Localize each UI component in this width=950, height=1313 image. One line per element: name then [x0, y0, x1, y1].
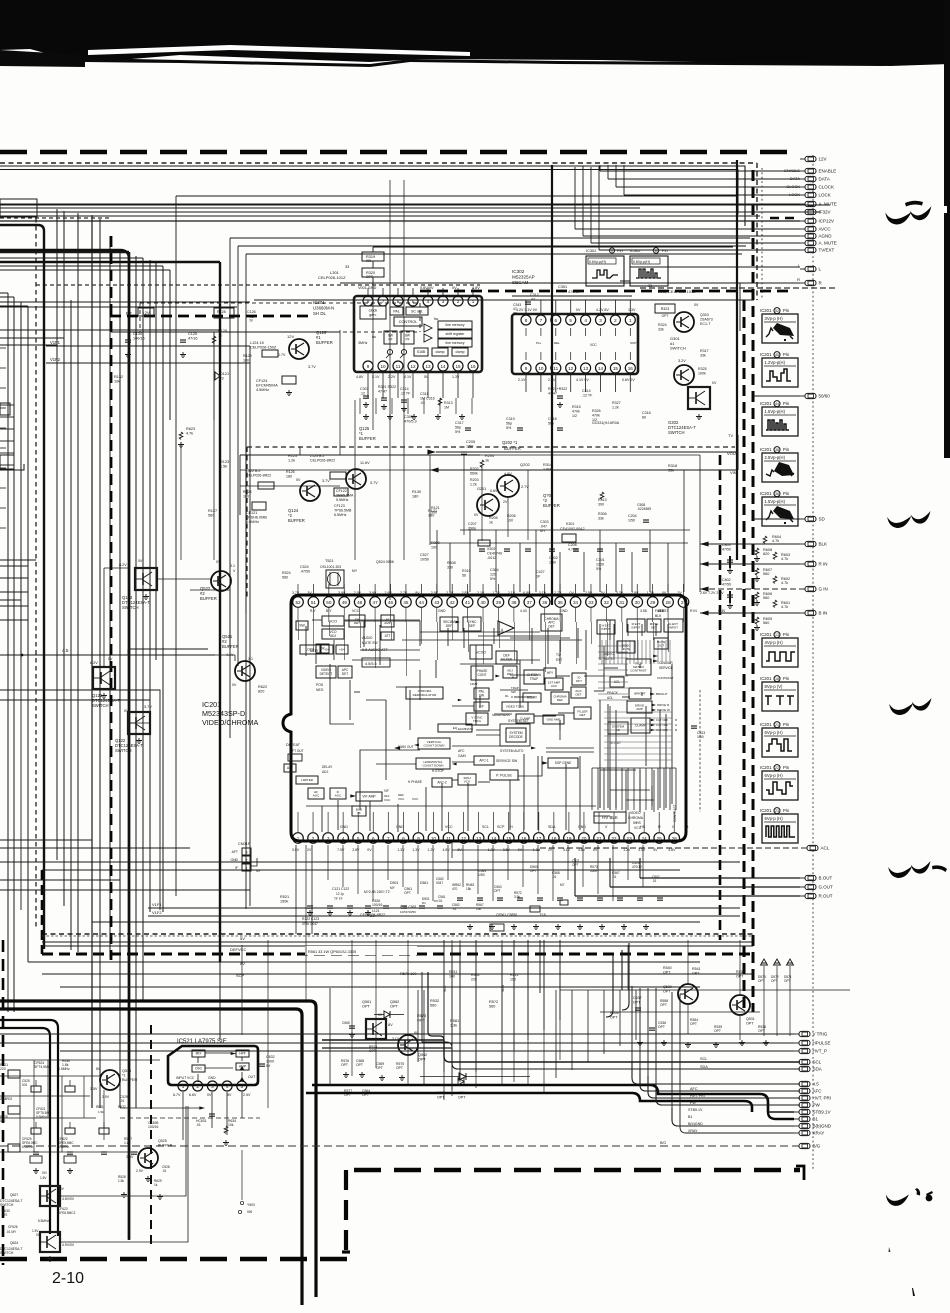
svg-text:2.8V: 2.8V	[631, 591, 639, 595]
svg-text:9: 9	[367, 364, 370, 369]
svg-text:39: 39	[496, 600, 502, 605]
bold bus corner left	[0, 1001, 316, 1297]
svg-text:A: A	[512, 675, 514, 679]
corner wires from top into verticals	[57, 209, 92, 216]
svg-text:1000: 1000	[266, 1059, 274, 1063]
svg-text:R: R	[675, 718, 677, 722]
svg-text:VIDEO: VIDEO	[604, 652, 614, 656]
IC301 top pins	[363, 296, 373, 306]
IC201 interior mesh wires	[344, 621, 364, 647]
svg-text:B(b)GND: B(b)GND	[688, 1122, 703, 1126]
svg-text:2V: 2V	[503, 500, 508, 504]
svg-text:IC201: IC201	[760, 401, 772, 406]
transistor G301 body	[674, 365, 694, 385]
svg-text:560: 560	[763, 572, 769, 576]
svg-text:6.6V: 6.6V	[189, 1093, 197, 1097]
connector G.OUT	[800, 886, 805, 888]
svg-text:47/50: 47/50	[722, 547, 731, 551]
svg-text:R127: R127	[208, 509, 217, 513]
svg-text:R321 R322: R321 R322	[378, 385, 396, 389]
svg-text:DET: DET	[576, 692, 582, 696]
svg-text:23: 23	[775, 809, 779, 813]
svg-text:GC531(HJ-6R0A: GC531(HJ-6R0A	[592, 421, 620, 425]
svg-text:2.9V: 2.9V	[446, 591, 454, 595]
bottom boundary corner hook	[796, 1166, 804, 1180]
svg-text:470/10: 470/10	[632, 865, 642, 869]
left edge entry stubs upper	[0, 404, 14, 406]
svg-text:C208: C208	[568, 543, 577, 547]
svg-text:R202: R202	[470, 467, 479, 471]
IC301 shift register box	[438, 330, 472, 338]
svg-text:C564: C564	[458, 1091, 467, 1095]
svg-text:38: 38	[775, 448, 779, 452]
svg-text:GND: GND	[208, 1076, 216, 1080]
svg-text:1k: 1k	[218, 334, 222, 338]
svg-text:SCL: SCL	[443, 985, 447, 992]
connector 50/60	[800, 395, 805, 397]
svg-text:10: 10	[538, 366, 544, 371]
svg-text:2.1V: 2.1V	[518, 378, 526, 382]
svg-text:.01: .01	[120, 1099, 125, 1103]
svg-text:3.5V: 3.5V	[503, 848, 511, 852]
svg-text:HPF: HPF	[239, 1052, 245, 1056]
svg-text:CONTRAST: CONTRAST	[630, 669, 647, 673]
connector BLK	[800, 543, 805, 545]
svg-text:Q202 *1: Q202 *1	[502, 440, 518, 445]
svg-text:6Vp-p (H): 6Vp-p (H)	[765, 730, 784, 735]
wires to top connectors	[600, 167, 800, 171]
svg-text:R502: R502	[471, 973, 480, 977]
svg-text:33k: 33k	[668, 469, 674, 473]
svg-text:0V: 0V	[694, 303, 699, 307]
svg-text:CF121: CF121	[246, 511, 257, 515]
svg-text:1.2k: 1.2k	[612, 405, 619, 409]
svg-text:33: 33	[345, 265, 349, 269]
IC201 CHROMA DEF box	[551, 692, 569, 704]
svg-text:9: 9	[611, 249, 613, 253]
svg-text:4.9V/0V: 4.9V/0V	[62, 1243, 75, 1247]
svg-text:6: 6	[372, 836, 375, 841]
svg-text:OPT: OPT	[658, 1025, 665, 1029]
wires IC521 bottom	[182, 1092, 184, 1140]
svg-text:CLOCK: CLOCK	[819, 185, 835, 190]
svg-text:OPT: OPT	[746, 1021, 754, 1025]
svg-text:2.8V: 2.8V	[462, 591, 470, 595]
svg-text:0.8Vp-p(H): 0.8Vp-p(H)	[633, 260, 650, 264]
svg-text:3.2V: 3.2V	[678, 359, 686, 363]
svg-text:1.5Vp-p(H): 1.5Vp-p(H)	[765, 499, 786, 504]
svg-text:33k: 33k	[700, 353, 706, 357]
svg-text:4: 4	[226, 1084, 229, 1089]
IC201 triangle amp	[498, 621, 514, 635]
svg-text:4: 4	[427, 299, 430, 304]
svg-text:AVCC: AVCC	[819, 227, 832, 232]
svg-text:D1: D1	[422, 901, 426, 905]
H EXT INPUT box	[597, 620, 615, 634]
svg-text:C315: C315	[420, 392, 429, 396]
svg-text:32: 32	[604, 600, 610, 605]
svg-text:12: 12	[461, 836, 467, 841]
svg-text:0V/: 0V/	[42, 1171, 47, 1175]
transistor Q562	[398, 1035, 418, 1055]
svg-text:Q562: Q562	[390, 1000, 399, 1004]
svg-text:R132: R132	[114, 375, 123, 379]
fast dashes above module bottom	[42, 935, 753, 937]
svg-text:4: 4	[584, 318, 587, 323]
IC201 P PULSE box	[490, 770, 518, 780]
svg-text:390: 390	[431, 510, 437, 514]
svg-text:3.5V: 3.5V	[126, 1155, 134, 1159]
svg-text:IC201: IC201	[202, 700, 221, 709]
svg-text:3: 3	[327, 836, 330, 841]
arrow vin	[430, 468, 439, 473]
svg-text:1M: 1M	[444, 405, 449, 409]
svg-text:CUT OFF: CUT OFF	[656, 718, 668, 722]
diode pair mid bottom	[459, 1073, 466, 1080]
thin risers to Q561 cluster	[622, 943, 629, 1010]
margin scribble 1	[885, 210, 912, 225]
svg-text:13: 13	[583, 366, 589, 371]
left bottom cap bodies	[31, 1086, 41, 1092]
svg-text:1.3V: 1.3V	[492, 591, 500, 595]
svg-text:8.2V: 8.2V	[90, 661, 98, 665]
svg-text:R308: R308	[447, 561, 456, 565]
svg-text:5: 5	[412, 299, 415, 304]
transistor Q202	[497, 475, 519, 497]
svg-text:OPT: OPT	[714, 1029, 721, 1033]
svg-text:BLK: BLK	[819, 542, 828, 547]
IC302 body	[512, 314, 638, 374]
svg-text:OPT: OPT	[660, 1003, 667, 1007]
svg-text:GND AMP: GND AMP	[547, 718, 561, 722]
svg-text:4Vp-p (H): 4Vp-p (H)	[765, 640, 784, 645]
module boundary left dashed vertical	[41, 870, 44, 954]
svg-text:Q524 0056: Q524 0056	[376, 560, 394, 564]
svg-text:43: 43	[434, 600, 440, 605]
left box on edge	[0, 199, 37, 217]
svg-text:.0224569: .0224569	[637, 507, 651, 511]
svg-text:VIF AMP: VIF AMP	[362, 795, 376, 799]
svg-text:VCC: VCC	[384, 798, 391, 802]
svg-text:0V: 0V	[216, 560, 221, 564]
svg-text:B.2: B.2	[370, 914, 375, 918]
svg-text:SYSTEM AUTO: SYSTEM AUTO	[500, 749, 524, 753]
svg-text:4.5: 4.5	[62, 648, 69, 653]
svg-text:TRAP: TRAP	[530, 677, 539, 681]
svg-text:560: 560	[489, 1005, 495, 1009]
transistor Q201	[477, 494, 499, 516]
svg-text:DEF: DEF	[557, 698, 563, 702]
svg-text:8: 8	[402, 836, 405, 841]
IC201 PAL SW box	[474, 688, 489, 699]
svg-text:clamp: clamp	[435, 350, 444, 354]
svg-text:2: 2	[246, 859, 248, 863]
wires below IC201	[295, 845, 297, 934]
svg-text:C318: C318	[642, 411, 651, 415]
svg-text:2.5V: 2.5V	[243, 1093, 251, 1097]
svg-text:2: 2	[196, 1084, 199, 1089]
svg-text:3.3V: 3.3V	[616, 591, 624, 595]
svg-text:STB9.1V: STB9.1V	[688, 1108, 703, 1112]
svg-text:1.5k: 1.5k	[118, 1179, 124, 1183]
svg-text:0V: 0V	[207, 1093, 212, 1097]
svg-text:B/G: B/G	[813, 1144, 821, 1149]
svg-text:AMP: AMP	[384, 621, 391, 625]
svg-text:C205: C205	[466, 440, 475, 444]
connector AGND	[800, 235, 805, 237]
svg-text:CE40749: CE40749	[487, 551, 502, 555]
svg-text:0V: 0V	[367, 848, 372, 852]
svg-text:R: R	[797, 277, 800, 282]
resistor R128 box	[214, 308, 234, 318]
IC201 CLAMP box a	[516, 714, 534, 723]
connector HPULSE	[794, 1042, 799, 1044]
left bottom wires	[0, 1075, 100, 1077]
svg-text:9: 9	[417, 836, 420, 841]
svg-text:VCO: VCO	[329, 619, 337, 623]
svg-text:DEF: DEF	[446, 624, 453, 628]
svg-text:15: 15	[613, 366, 619, 371]
svg-text:2V: 2V	[307, 848, 312, 852]
svg-text:12: 12	[410, 364, 416, 369]
svg-text:2.7V: 2.7V	[554, 591, 562, 595]
svg-text:Pin: Pin	[783, 491, 790, 496]
svg-text:12: 12	[568, 366, 574, 371]
svg-text:560: 560	[763, 621, 769, 625]
svg-text:Pin: Pin	[662, 248, 668, 253]
svg-text:1: 1	[297, 836, 300, 841]
svg-text:K301: K301	[566, 522, 574, 526]
svg-text:R317: R317	[700, 349, 709, 353]
svg-text:1.6M: 1.6M	[543, 468, 551, 472]
IC201 EQ ELIMINATE box	[438, 724, 472, 732]
svg-text:IC201: IC201	[760, 676, 772, 681]
svg-text:470/10: 470/10	[568, 290, 580, 294]
svg-text:COUNT DOWN: COUNT DOWN	[423, 763, 444, 767]
svg-text:100k: 100k	[698, 371, 706, 375]
svg-text:7: 7	[382, 299, 385, 304]
IC201 SECAM REF box	[440, 617, 458, 631]
svg-text:1: 1	[472, 299, 475, 304]
svg-text:80: 80	[642, 415, 646, 419]
IC201 HORIZONTAL COUNT DOWN box	[416, 758, 450, 769]
svg-text:0V: 0V	[576, 308, 581, 312]
svg-text:2.8V: 2.8V	[352, 848, 360, 852]
svg-text:Pin: Pin	[783, 447, 790, 452]
svg-text:5: 5	[241, 1084, 244, 1089]
svg-text:CF561 C5850: CF561 C5850	[496, 913, 517, 917]
transistor Q126	[289, 339, 309, 359]
svg-text:VCC: VCC	[445, 825, 453, 829]
svg-text:C317: C317	[455, 421, 464, 425]
svg-text:SECAM: SECAM	[512, 280, 529, 285]
svg-text:001: 001	[22, 1083, 28, 1087]
wire heavy right step	[621, 950, 623, 990]
svg-text:10/50 50/50: 10/50 50/50	[400, 910, 416, 914]
svg-text:INPUT: INPUT	[602, 627, 611, 631]
svg-text:L124 15: L124 15	[250, 341, 264, 345]
svg-text:560: 560	[208, 514, 214, 518]
resonator CF121	[252, 502, 266, 510]
svg-text:R313: R313	[444, 401, 453, 405]
svg-text:C524: C524	[300, 565, 309, 569]
svg-text:IC201: IC201	[760, 808, 772, 813]
bold bus corner left inner pair	[0, 1020, 58, 1236]
svg-text:3: 3	[442, 299, 445, 304]
svg-text:XRAY: XRAY	[688, 1129, 698, 1133]
IC301 clock gen box	[360, 306, 386, 319]
svg-text:B: B	[675, 728, 677, 732]
IC201 ID DET box	[572, 673, 586, 685]
svg-text:CELP026-8R22: CELP026-8R22	[310, 458, 335, 462]
svg-text:100/16: 100/16	[372, 903, 382, 907]
connector V TRIG	[794, 1033, 799, 1035]
svg-text:C302: C302	[549, 556, 558, 560]
svg-text:ACC: ACC	[551, 684, 558, 688]
svg-text:R121: R121	[431, 506, 440, 510]
top bar lower ragged stripe	[0, 50, 85, 67]
svg-text:PW: PW	[690, 1101, 696, 1105]
svg-text:Q526: Q526	[122, 1069, 131, 1073]
svg-text:DL: DL	[505, 694, 509, 698]
svg-text:SWITCH: SWITCH	[122, 605, 139, 610]
svg-text:31: 31	[619, 600, 625, 605]
svg-text:C351: C351	[558, 285, 567, 289]
svg-text:0.6V 2V: 0.6V 2V	[622, 378, 635, 382]
svg-text:16: 16	[470, 364, 476, 369]
svg-text:SGP GENE: SGP GENE	[555, 761, 572, 765]
connector ICP12V	[800, 220, 805, 222]
svg-text:R.OUT: R.OUT	[819, 894, 833, 899]
svg-text:Pin: Pin	[783, 401, 790, 406]
svg-text:A. MUTE: A. MUTE	[819, 241, 837, 246]
svg-text:44: 44	[419, 600, 425, 605]
svg-text:19: 19	[566, 836, 572, 841]
svg-text:2.1V: 2.1V	[508, 591, 516, 595]
IC201 HV BLK hatch	[591, 768, 593, 810]
svg-text:0.6Vp-p(H): 0.6Vp-p(H)	[589, 260, 606, 264]
svg-text:29: 29	[650, 600, 656, 605]
resistor R320 box	[362, 268, 384, 277]
svg-text:R125: R125	[288, 454, 297, 458]
IC302 pin stub wires	[525, 300, 527, 315]
svg-text:2: 2	[312, 836, 315, 841]
svg-text:IC201: IC201	[760, 447, 772, 452]
SCL SDA feeder pair	[322, 1039, 444, 1041]
svg-text:C204: C204	[628, 514, 637, 518]
svg-text:1/50: 1/50	[628, 518, 635, 522]
svg-text:3.1: 3.1	[230, 564, 235, 568]
svg-text:OPT: OPT	[376, 1066, 383, 1070]
module left border dashed vertical	[110, 236, 113, 960]
svg-text:IO OUT: IO OUT	[610, 741, 621, 745]
svg-text:.47: .47	[530, 297, 535, 301]
svg-text:47: 47	[373, 600, 379, 605]
svg-text:IC201: IC201	[760, 308, 772, 313]
svg-text:R318: R318	[668, 464, 677, 468]
svg-text:CONT: CONT	[477, 673, 486, 677]
svg-text:21: 21	[775, 723, 779, 727]
connector 4.5	[794, 1083, 799, 1085]
svg-text:R561 33 1W QP601SJ-3305: R561 33 1W QP601SJ-3305	[308, 950, 356, 954]
svg-text:C125: C125	[188, 332, 197, 336]
svg-text:100: 100	[510, 977, 516, 981]
IC201 FM DET box	[349, 615, 365, 627]
connector R.OUT	[800, 895, 805, 897]
svg-text:TPS5.5MA: TPS5.5MA	[336, 493, 354, 497]
svg-text:OUT: OUT	[248, 1075, 255, 1079]
mid-bottom long wires	[241, 945, 243, 1035]
svg-text:0V: 0V	[452, 286, 457, 290]
svg-text:1.3V: 1.3V	[397, 848, 405, 852]
IC301 amps	[424, 324, 432, 332]
svg-text:M?2.4B 21B?-T2: M?2.4B 21B?-T2	[364, 890, 390, 894]
svg-text:M52325AP: M52325AP	[512, 275, 535, 280]
svg-text:4.8V/0V: 4.8V/0V	[62, 1197, 75, 1201]
svg-text:BRIGHT: BRIGHT	[656, 692, 668, 696]
svg-text:15: 15	[455, 364, 461, 369]
svg-text:IF32V: IF32V	[819, 210, 831, 215]
connector R IN	[800, 563, 805, 565]
resistor R602	[773, 576, 777, 583]
svg-text:7.5V: 7.5V	[337, 848, 345, 852]
wires top-left cluster	[111, 331, 340, 333]
svg-text:6.0MHz: 6.0MHz	[246, 520, 259, 524]
svg-text:6.0MHz: 6.0MHz	[22, 1145, 33, 1149]
IC521 wires	[198, 1053, 242, 1082]
svg-text:Pin: Pin	[783, 352, 790, 357]
svg-text:C632: C632	[266, 1055, 275, 1059]
svg-text:1.8k: 1.8k	[62, 1063, 69, 1067]
svg-text:SERVICE SW: SERVICE SW	[496, 759, 518, 763]
svg-text:GND: GND	[578, 825, 586, 829]
svg-text:R310: R310	[462, 569, 471, 573]
svg-text:VCC: VCC	[412, 797, 419, 801]
svg-text:DRIVE R: DRIVE R	[657, 703, 670, 707]
svg-text:R581: R581	[450, 1019, 459, 1023]
svg-text:10: 10	[654, 249, 658, 253]
svg-text:0V: 0V	[232, 683, 237, 687]
svg-text:2SA673: 2SA673	[700, 317, 713, 321]
svg-text:2.9V: 2.9V	[385, 591, 393, 595]
resistor R607	[755, 568, 759, 575]
BUS I/F box	[352, 806, 366, 816]
svg-text:BUFFER: BUFFER	[158, 1143, 173, 1147]
svg-text:4.8V: 4.8V	[668, 848, 676, 852]
IC201 interior wires	[312, 619, 322, 621]
svg-text:CF626: CF626	[8, 1225, 18, 1229]
svg-text:26: 26	[672, 836, 678, 841]
arrow vout	[427, 450, 436, 455]
Y503 mark	[240, 1201, 243, 1204]
svg-text:ADJ: ADJ	[330, 634, 336, 638]
connector HVT_P	[794, 1050, 799, 1052]
svg-text:OPT: OPT	[610, 1015, 618, 1019]
svg-text:PLL: PLL	[536, 341, 542, 345]
IC201 AGC DET box	[503, 666, 517, 678]
IC301 8W PF boxes	[384, 331, 397, 344]
svg-text:TV: TV	[728, 433, 733, 438]
svg-text:47 47: 47 47	[378, 389, 387, 393]
svg-text:B1: B1	[813, 1117, 819, 1122]
svg-text:C304: C304	[490, 568, 499, 572]
svg-text:IC302: IC302	[512, 269, 525, 274]
R EXT INPUT box	[627, 619, 645, 632]
HV BLK box	[594, 812, 626, 823]
IC301 bottom pins	[363, 361, 373, 371]
svg-text:21: 21	[596, 836, 602, 841]
svg-text:V1F2: V1F2	[152, 910, 162, 915]
